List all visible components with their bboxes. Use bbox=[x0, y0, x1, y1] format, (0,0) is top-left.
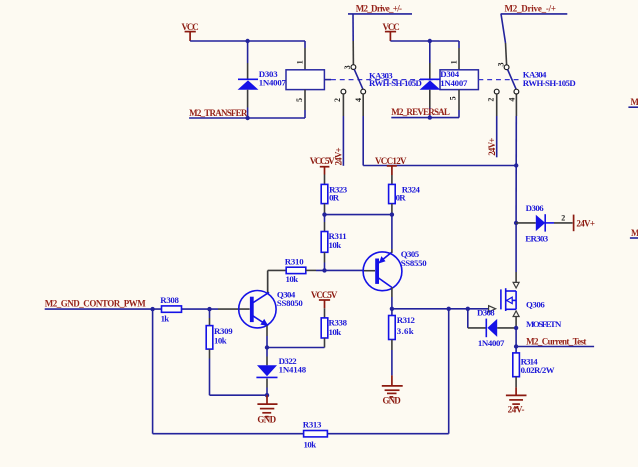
svg-text:1: 1 bbox=[449, 60, 458, 64]
junction D308 anode / MOSFET source bbox=[514, 326, 518, 330]
dashed link KA304 coil to switch bbox=[478, 79, 521, 81]
junction D306 anode bbox=[514, 221, 518, 225]
svg-text:ER303: ER303 bbox=[525, 234, 548, 244]
svg-text:SS8550: SS8550 bbox=[401, 258, 427, 268]
svg-text:2: 2 bbox=[333, 98, 342, 102]
junction gate row / D308 bbox=[466, 307, 470, 311]
svg-text:1N4007: 1N4007 bbox=[440, 78, 468, 88]
wire gate row bbox=[392, 308, 489, 310]
wire Q305 collector down bbox=[391, 287, 393, 309]
net label M (right edge lower, clipped) bbox=[630, 228, 638, 238]
svg-text:24V-: 24V- bbox=[508, 405, 525, 415]
wire D306 to MOSFET drain bbox=[515, 223, 517, 272]
junction M2_GND / bottom loop bbox=[150, 307, 154, 311]
svg-text:5: 5 bbox=[448, 96, 457, 100]
svg-text:2: 2 bbox=[487, 98, 496, 102]
svg-text:SS8050: SS8050 bbox=[277, 298, 303, 308]
svg-text:VCC: VCC bbox=[383, 22, 400, 32]
power GND (below D322) bbox=[257, 395, 277, 424]
svg-text:1k: 1k bbox=[161, 314, 170, 324]
wire M2_Drive_-/+ to switch KA304 pin 3 bbox=[501, 14, 568, 65]
junction at D304 bottom bbox=[428, 115, 432, 119]
resistor R338 10k bbox=[321, 308, 347, 347]
junction M2_Current_Test tap bbox=[514, 344, 518, 348]
svg-text:VCC: VCC bbox=[182, 22, 199, 32]
junction gate row / bottom loop bbox=[447, 307, 451, 311]
svg-text:0R: 0R bbox=[396, 192, 407, 202]
wire D303 bottom branch bbox=[247, 108, 249, 119]
svg-text:GND: GND bbox=[383, 395, 402, 405]
svg-text:R338: R338 bbox=[329, 317, 348, 327]
power 24V+ (below KA304 pin 2) bbox=[487, 138, 497, 156]
resistor R308 1k bbox=[160, 295, 181, 324]
resistor R313 10k bbox=[303, 419, 328, 449]
transistor Q304 SS8050 bbox=[218, 289, 303, 328]
svg-text:5: 5 bbox=[295, 98, 304, 102]
wire KA303 pin 4 to 24V rail bbox=[363, 94, 516, 166]
wire M2_GND row bbox=[45, 308, 218, 310]
svg-text:3: 3 bbox=[343, 65, 352, 69]
wire VCC to relay coil KA304 pin 1 bbox=[390, 40, 459, 42]
wire D303 top branch bbox=[247, 41, 249, 63]
resistor R314 0.02R/2W bbox=[513, 353, 555, 388]
diode D304 1N4007 bbox=[420, 63, 468, 118]
svg-text:1N4148: 1N4148 bbox=[279, 365, 307, 375]
svg-text:VCC5V: VCC5V bbox=[311, 290, 338, 300]
svg-text:MOSFET N: MOSFET N bbox=[526, 319, 562, 329]
wire R323 to R324 base rail bbox=[325, 213, 392, 215]
svg-text:GND: GND bbox=[257, 414, 276, 424]
junction R323 / R311 bbox=[322, 212, 326, 216]
svg-text:24V+: 24V+ bbox=[487, 138, 497, 156]
power 24V- (earth below R314) bbox=[506, 387, 527, 414]
diode D322 1N4148 bbox=[256, 348, 306, 396]
transistor Q305 SS8550 bbox=[363, 249, 427, 291]
wire M2_TRANSFER to relay coil pin 5 bbox=[189, 117, 305, 119]
svg-text:3: 3 bbox=[496, 63, 505, 67]
relay coil KA304 (box) bbox=[440, 41, 478, 118]
wire M2_REVERSAL to relay coil pin 5 bbox=[391, 117, 459, 119]
wire R310 to Q305 base bbox=[316, 269, 363, 271]
svg-text:10k: 10k bbox=[329, 240, 342, 250]
resistor R311 10k bbox=[321, 222, 347, 263]
relay switch KA303 RWH-SH-105D bbox=[341, 65, 422, 94]
power VCC5V (above R338) bbox=[311, 290, 338, 309]
svg-text:3.6k: 3.6k bbox=[397, 326, 414, 336]
svg-text:M2_Drive_+/-: M2_Drive_+/- bbox=[356, 4, 402, 14]
mosfet Q306 MOSFET N bbox=[489, 272, 562, 329]
junction Q305 collector / R312 / gate row bbox=[390, 307, 394, 311]
wire D304 top branch bbox=[429, 41, 431, 63]
wire R311 top bbox=[324, 215, 326, 222]
svg-text:M2_Drive_-/+: M2_Drive_-/+ bbox=[505, 4, 557, 14]
svg-text:0.02R/2W: 0.02R/2W bbox=[521, 365, 555, 375]
svg-text:M2_: M2_ bbox=[631, 97, 638, 107]
junction at D303 bottom bbox=[245, 116, 249, 120]
svg-text:RWH-SH-105D: RWH-SH-105D bbox=[369, 78, 422, 88]
junction at D303 top bbox=[245, 39, 249, 43]
relay coil KA303 (box) bbox=[286, 41, 331, 118]
diode D308 1N4007 bbox=[468, 307, 516, 347]
power 24V+ (right of D306) bbox=[574, 215, 595, 232]
svg-text:4: 4 bbox=[507, 98, 516, 102]
net label M2_Current_Test bbox=[516, 337, 594, 347]
svg-text:M2_TRANSFER: M2_TRANSFER bbox=[189, 108, 248, 118]
junction R308 / R309 bbox=[207, 307, 211, 311]
wire R310 to Q304 collector bbox=[267, 270, 269, 292]
svg-text:RWH-SH-105D: RWH-SH-105D bbox=[523, 78, 576, 88]
svg-text:R312: R312 bbox=[397, 315, 416, 325]
power VCC (relay KA304 coil) bbox=[383, 22, 400, 41]
wire 24V rail KA304 pin4 down bbox=[515, 94, 517, 166]
wire VCC to relay coil KA303 pin 1 bbox=[190, 40, 305, 42]
junction 24V rail / pin4 row bbox=[514, 163, 518, 167]
svg-text:10k: 10k bbox=[286, 274, 299, 284]
svg-text:M2_Current_Test: M2_Current_Test bbox=[526, 337, 586, 347]
wire R312 to GND bbox=[391, 350, 393, 375]
relay switch KA304 RWH-SH-105D bbox=[494, 65, 575, 94]
svg-text:1: 1 bbox=[295, 60, 304, 64]
wire M2_Drive_+/- to switch KA303 pin 3 bbox=[348, 14, 412, 65]
resistor R309 10k bbox=[206, 309, 233, 358]
wire Q304 emitter down bbox=[266, 326, 268, 348]
svg-text:1N4007: 1N4007 bbox=[478, 338, 505, 348]
svg-text:R310: R310 bbox=[285, 257, 304, 267]
resistor R310 10k bbox=[268, 257, 316, 284]
wire 24V rail to D306 bbox=[515, 166, 517, 223]
power 24V+ (below KA303 pin 2) bbox=[334, 147, 344, 165]
junction R324 / Q305 emitter bbox=[390, 212, 394, 216]
svg-text:M2_GND_CONTOR_PWM: M2_GND_CONTOR_PWM bbox=[45, 299, 147, 309]
power VCC (relay KA303 coil) bbox=[182, 22, 199, 41]
svg-text:R313: R313 bbox=[303, 419, 322, 429]
svg-text:2: 2 bbox=[561, 213, 565, 222]
svg-text:M2_REVERSAL: M2_REVERSAL bbox=[391, 107, 450, 117]
junction R311 / R310 bbox=[322, 268, 326, 272]
diode D303 1N4007 bbox=[238, 63, 287, 108]
svg-text:0R: 0R bbox=[329, 192, 340, 202]
svg-text:VCC5V: VCC5V bbox=[310, 156, 336, 166]
wire bottom loop bbox=[153, 309, 449, 434]
wire MOSFET source to R314 bbox=[515, 328, 517, 353]
diode D306 ER303 bbox=[516, 203, 573, 244]
svg-text:M2_: M2_ bbox=[631, 228, 638, 238]
wire KA303 pin 2 down bbox=[342, 94, 344, 166]
resistor R312 3.6k bbox=[389, 309, 416, 350]
power VCC12V bbox=[375, 156, 407, 175]
junction D322 cathode / GND bbox=[265, 393, 269, 397]
svg-text:Q306: Q306 bbox=[526, 300, 545, 310]
wire R311 to base row bbox=[324, 263, 326, 271]
wire R309 to D322 bottom bbox=[210, 359, 268, 396]
wire R338 to Q304 emitter junction bbox=[267, 347, 325, 349]
dashed link KA303 coil to switch bbox=[331, 79, 438, 81]
svg-text:1N4007: 1N4007 bbox=[259, 77, 287, 87]
junction Q304 emitter / R338 / D322 bbox=[265, 345, 269, 349]
svg-text:10k: 10k bbox=[304, 439, 317, 449]
svg-text:VCC12V: VCC12V bbox=[375, 156, 407, 166]
resistor R324 0R bbox=[389, 175, 421, 213]
net label M (right edge, clipped) bbox=[628, 97, 638, 107]
svg-text:24V+: 24V+ bbox=[576, 218, 595, 228]
svg-text:10k: 10k bbox=[329, 327, 342, 337]
wire Q305 emitter up to rail bbox=[391, 215, 393, 253]
svg-text:R308: R308 bbox=[160, 295, 179, 305]
svg-text:4: 4 bbox=[354, 98, 363, 102]
wire Q304 collector up bbox=[267, 271, 269, 292]
power VCC5V (above R323) bbox=[310, 156, 336, 174]
svg-text:D306: D306 bbox=[526, 203, 545, 213]
svg-text:10k: 10k bbox=[214, 335, 227, 345]
svg-text:24V+: 24V+ bbox=[334, 147, 344, 165]
power GND (below R312) bbox=[382, 375, 403, 405]
resistor R323 0R bbox=[321, 175, 348, 213]
junction at D304 top bbox=[428, 39, 432, 43]
svg-text:D308: D308 bbox=[477, 307, 495, 317]
wire KA304 pin 2 down bbox=[496, 94, 498, 157]
